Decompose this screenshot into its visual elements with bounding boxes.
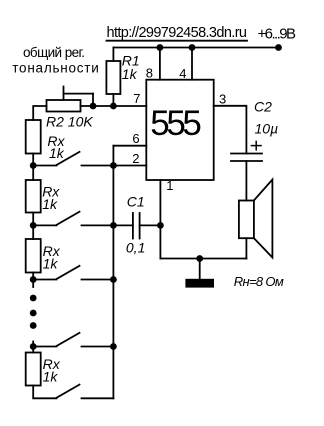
wire: pin 7 line from R2 to 555 <box>81 105 147 107</box>
wire: wiper horizontal <box>64 93 94 95</box>
wire: pin 1 down <box>159 180 161 259</box>
wire: R1 to pin 7 node <box>112 94 114 106</box>
pin 4 label <box>179 66 186 81</box>
svg-text:C1: C1 <box>127 194 145 210</box>
net label: site URL <box>107 25 248 41</box>
pin 1 label <box>166 178 173 193</box>
svg-text:общий рег.: общий рег. <box>23 45 85 60</box>
wire: Rx1 to row 1 <box>32 154 34 166</box>
node: R1 junction on pin 7 line <box>110 103 117 110</box>
label R2 value <box>46 113 93 129</box>
pin 2 label <box>132 151 139 166</box>
potentiometer R2 body <box>47 100 81 112</box>
speaker horn <box>254 180 273 258</box>
capacitor C1 right wire <box>140 224 161 226</box>
wire: bus vertical <box>112 166 114 399</box>
wire: Rx5 bottom lead to row 5 <box>33 386 56 399</box>
switch S4 fixed wire <box>82 346 114 348</box>
wire: stub to ground <box>199 259 201 279</box>
svg-text:0,1: 0,1 <box>126 240 145 256</box>
switch S5 fixed wire <box>82 397 114 399</box>
node: rail junction to pin 4 <box>189 44 196 51</box>
svg-text:4: 4 <box>179 66 186 81</box>
node: C1 to pin 1 junction <box>157 222 164 229</box>
node: ellipsis dot 1 <box>30 295 37 302</box>
wire: stub below row 3 <box>32 280 34 288</box>
node: ellipsis dot 2 <box>30 310 37 317</box>
svg-text:555: 555 <box>150 104 202 143</box>
node: row 2 bus junction <box>110 222 117 229</box>
svg-text:1k: 1k <box>49 145 65 161</box>
capacitor C1 left wire <box>113 224 132 226</box>
svg-text:1: 1 <box>166 178 173 193</box>
switch S3 blade <box>57 266 80 279</box>
node: row 2 left <box>30 222 37 229</box>
resistor Rx5 <box>26 353 41 386</box>
wire: wiper down to pin 7 node <box>92 94 94 106</box>
switch S1 blade <box>57 152 80 165</box>
wire: rail down to R1 <box>112 48 114 62</box>
wire: Rx3 to row 3 <box>32 273 34 280</box>
svg-text:3: 3 <box>219 91 226 106</box>
wire: C2 to speaker <box>245 161 247 201</box>
svg-text:тональности: тональности <box>12 61 99 76</box>
label: tone control note <box>12 45 99 75</box>
wire: pin 2 line <box>113 165 146 167</box>
pin 6 label <box>132 131 139 146</box>
wire: pin 8 drop <box>159 48 161 80</box>
wire: speaker to ground rail <box>245 238 247 258</box>
node: row 3 bus junction <box>110 276 117 283</box>
wire: R2 left lead <box>33 106 46 120</box>
pin 3 label <box>219 91 226 106</box>
speaker body <box>239 201 254 239</box>
svg-text:Rн=8 Ом: Rн=8 Ом <box>234 274 284 289</box>
switch S2 pole wire <box>33 224 56 226</box>
wire: bus pin6 to pin2 <box>112 146 114 166</box>
switch S3 fixed wire <box>82 279 114 281</box>
svg-text:6: 6 <box>132 131 139 146</box>
resistor Rx2 <box>26 180 41 213</box>
resistor R1 <box>106 61 120 94</box>
wire: Rx2 to row 2 <box>32 213 34 226</box>
node: wiper junction on pin 7 line <box>90 103 97 110</box>
node: row 4 bus junction <box>110 343 117 350</box>
label C2 <box>254 99 278 137</box>
switch S2 fixed wire <box>82 224 114 226</box>
wire: underline under URL <box>107 40 248 42</box>
R2 wiper stub <box>63 87 65 101</box>
svg-text:1k: 1k <box>42 196 58 212</box>
switch S1 pole wire <box>33 165 56 167</box>
wire: row1 to Rx2 <box>32 166 34 181</box>
wire: row4 to Rx5 <box>32 347 34 353</box>
svg-text:10µ: 10µ <box>255 121 279 137</box>
node: rail junction to pin 8 <box>157 44 164 51</box>
svg-text:1k: 1k <box>43 256 59 272</box>
node: ground junction <box>196 255 203 262</box>
svg-text:1k: 1k <box>43 369 59 385</box>
svg-text:http://299792458.3dn.ru: http://299792458.3dn.ru <box>107 25 248 41</box>
node: row 1 left <box>30 162 37 169</box>
wire: +V power rail <box>113 47 278 49</box>
switch S1 fixed wire <box>82 165 114 167</box>
label C1 <box>126 194 145 256</box>
svg-text:1k: 1k <box>122 66 138 82</box>
net label: +6...9V supply <box>258 26 297 43</box>
wire: pin 3 line <box>214 106 247 154</box>
svg-text:8: 8 <box>146 66 153 81</box>
resistor Rx3 <box>26 239 41 273</box>
wire: pin 4 drop <box>191 48 193 80</box>
switch S4 pole wire <box>33 346 56 348</box>
switch S3 pole wire <box>33 279 56 281</box>
node: row 3 left <box>30 276 37 283</box>
pin 7 label <box>133 91 140 106</box>
wire: stub above row 4 <box>32 342 34 347</box>
switch S5 blade <box>57 385 80 398</box>
wire: row2 to Rx3 <box>32 225 34 239</box>
label speaker impedance <box>234 274 284 289</box>
capacitor C2 plates <box>231 153 262 155</box>
wire: bottom ground rail <box>160 258 246 260</box>
pin 8 label <box>146 66 153 81</box>
node: +V terminal dot <box>275 44 282 51</box>
svg-text:C2: C2 <box>254 99 272 115</box>
node: ellipsis dot 3 <box>30 322 37 329</box>
resistor Rx1 <box>26 120 41 154</box>
node: row 4 left <box>30 343 37 350</box>
svg-text:2: 2 <box>132 151 139 166</box>
node: row 1 bus junction <box>110 162 117 169</box>
svg-text:R2 10K: R2 10K <box>46 113 93 129</box>
ground <box>185 279 214 288</box>
label C2 plus <box>251 145 261 147</box>
op-amp U1: 555 timer box <box>146 80 213 180</box>
capacitor C1 plates <box>132 213 134 239</box>
wire: pin 6 line <box>113 145 146 147</box>
svg-text:7: 7 <box>133 91 140 106</box>
label R1 value <box>122 53 140 82</box>
switch S4 blade <box>57 333 80 346</box>
svg-text:+6...9В: +6...9В <box>258 26 297 43</box>
switch S2 blade <box>57 212 80 225</box>
